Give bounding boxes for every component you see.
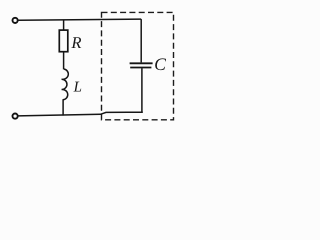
wire (capacitor top lead, corner down to plate): [140, 19, 142, 62]
label C: [155, 58, 166, 70]
capacitor C bottom plate: [130, 67, 151, 69]
label L: [73, 82, 81, 92]
wire (capacitor bottom lead): [141, 68, 143, 112]
capacitor C top plate: [130, 62, 153, 64]
wire (bottom, terminal to capacitor lead, slight jog): [18, 112, 143, 116]
terminal (top-left): [13, 18, 18, 23]
resistor R: [59, 30, 68, 52]
terminal (bottom-left): [13, 114, 18, 119]
label R: [71, 37, 81, 48]
wire (resistor to inductor): [63, 52, 65, 69]
wire (branch lead, top wire to resistor): [63, 20, 65, 31]
wire (inductor to bottom wire): [62, 99, 64, 115]
dashed two-terminal network box: [102, 12, 174, 119]
inductor L (coil): [62, 69, 69, 100]
wire (top, terminal to capacitor corner): [18, 19, 141, 20]
